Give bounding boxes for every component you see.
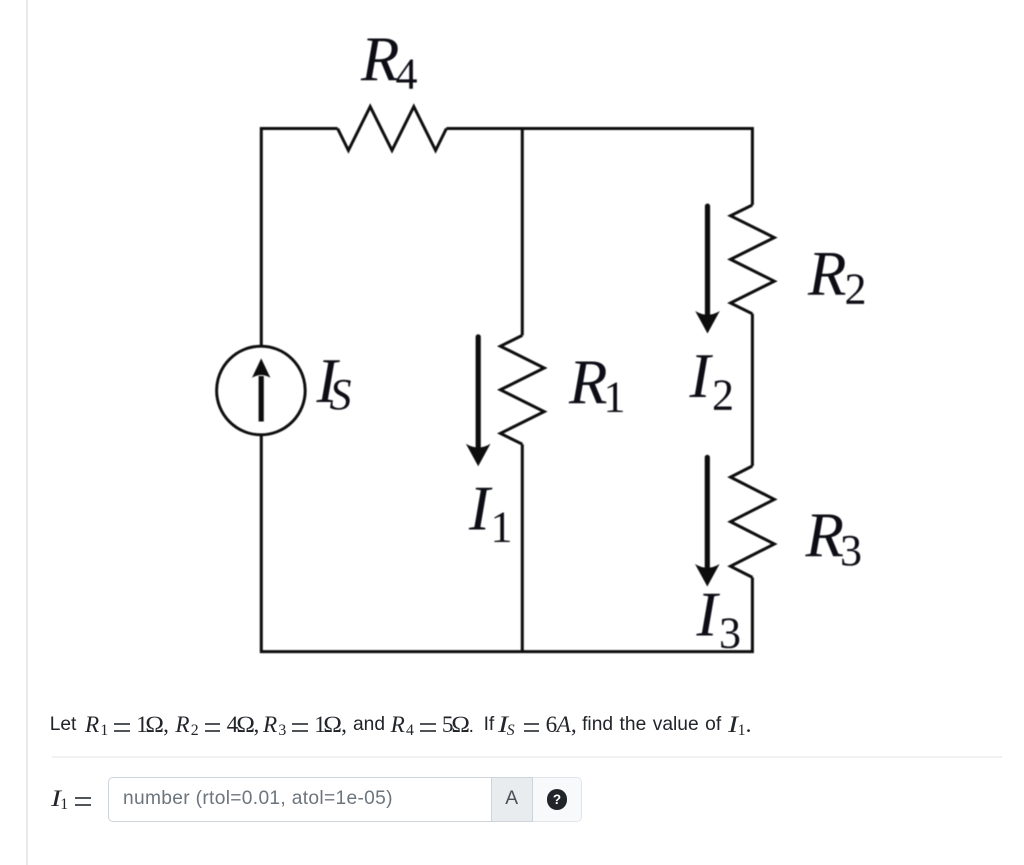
wire top-left corner: top wire left segment + left wire down to source bbox=[261, 129, 337, 347]
wire left wire below source to bottom-left corner + bottom wire + right wire up to R3 bbox=[261, 435, 752, 652]
svg-text:3: 3 bbox=[840, 526, 862, 575]
svg-text:I: I bbox=[689, 341, 714, 411]
resistor R3 bbox=[731, 466, 775, 577]
svg-text:I: I bbox=[468, 474, 493, 544]
number input field bbox=[108, 777, 491, 822]
help button with ? badge bbox=[533, 777, 582, 822]
resistor R4 bbox=[338, 107, 447, 151]
unit suffix A bbox=[491, 777, 533, 822]
current arrow I2 bbox=[705, 204, 710, 324]
current arrow I3 bbox=[705, 455, 710, 577]
resistor R2 bbox=[731, 205, 775, 314]
current arrow I1 bbox=[476, 334, 481, 456]
wire middle branch bottom segment bbox=[521, 444, 524, 651]
left panel divider line bbox=[26, 0, 28, 865]
svg-text:R: R bbox=[805, 501, 844, 571]
svg-text:1: 1 bbox=[604, 373, 626, 422]
svg-text:R: R bbox=[568, 348, 607, 418]
faint horizontal rule bbox=[52, 756, 1002, 758]
svg-text:S: S bbox=[330, 370, 352, 419]
svg-text:3: 3 bbox=[719, 609, 741, 658]
current source arrow bbox=[259, 376, 264, 422]
svg-text:I: I bbox=[696, 580, 721, 650]
label I1 = bbox=[51, 787, 63, 811]
resistor R1 bbox=[500, 335, 544, 444]
wire right branch between R2 and R3 bbox=[751, 314, 754, 466]
wire middle branch top segment bbox=[521, 129, 524, 336]
svg-text:4: 4 bbox=[396, 50, 418, 99]
current source IS circle bbox=[217, 346, 306, 435]
svg-text:2: 2 bbox=[712, 371, 734, 420]
problem statement sentence bbox=[50, 713, 77, 737]
svg-text:2: 2 bbox=[845, 265, 867, 314]
svg-text:1: 1 bbox=[491, 503, 513, 552]
svg-text:R: R bbox=[360, 25, 399, 95]
svg-text:R: R bbox=[807, 239, 846, 309]
answer input row bbox=[51, 787, 91, 814]
wire top wire right segment + right wire down to R2 bbox=[446, 129, 752, 206]
